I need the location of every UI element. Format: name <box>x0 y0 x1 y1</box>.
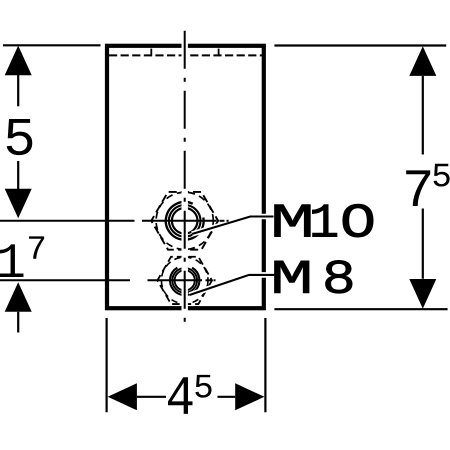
centerline of M10 hole <box>0 220 229 222</box>
nut M10 <box>151 192 218 250</box>
halo of leader lines <box>190 217 276 296</box>
leader M10 <box>192 217 274 235</box>
halo of vertical centerline <box>181 40 187 313</box>
leader M8 <box>190 275 276 295</box>
dimension 17 <box>0 236 44 332</box>
label M8 <box>275 260 353 293</box>
block outline <box>107 46 264 308</box>
centerline of M8 hole <box>0 279 216 281</box>
dimension 45 <box>107 318 266 414</box>
hidden nut corner tick left <box>150 49 152 57</box>
hidden nut corner tick right <box>218 49 220 57</box>
hidden edge line <box>109 54 262 56</box>
dimension 75 <box>274 46 449 310</box>
nut M8 <box>157 257 212 304</box>
label M10 <box>275 204 374 237</box>
vertical centerline <box>184 31 186 325</box>
dimension 5 <box>3 45 101 218</box>
